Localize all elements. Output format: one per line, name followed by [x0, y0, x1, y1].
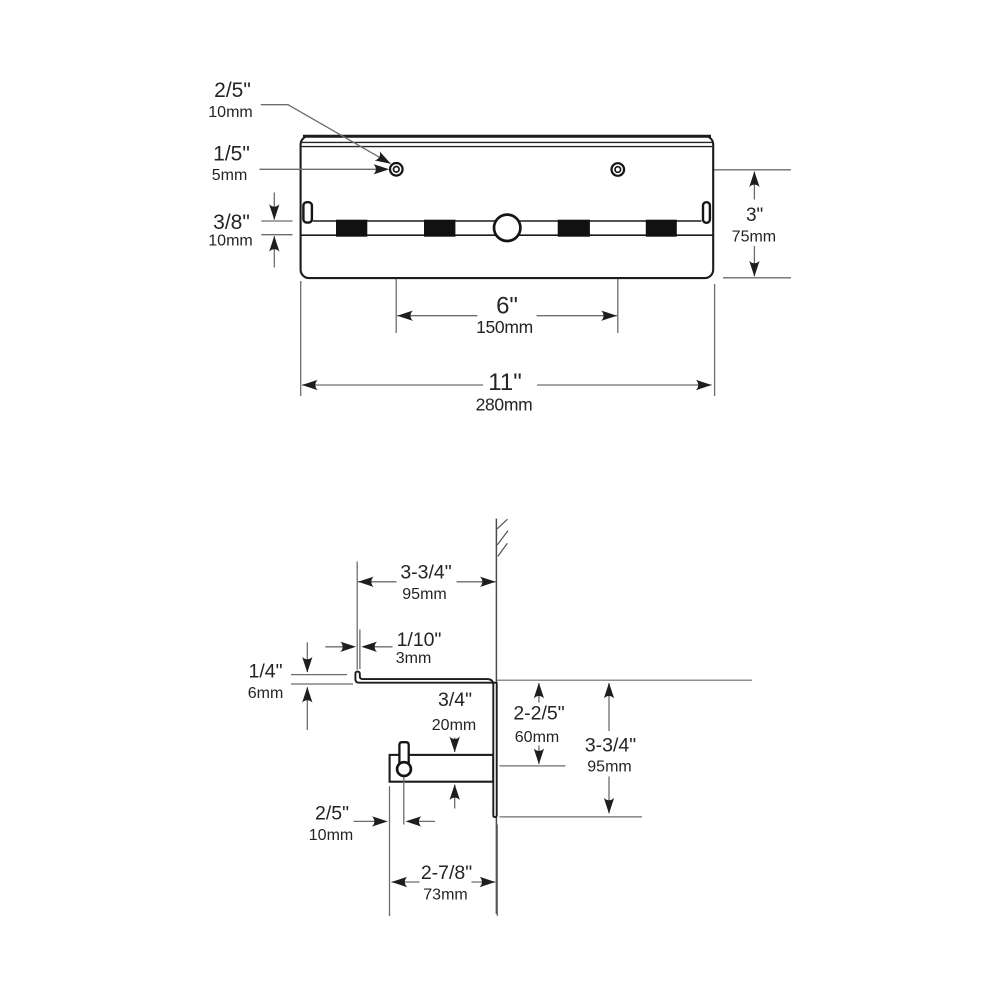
label 3-3/4in 95mm right: [585, 735, 636, 776]
dimension 3in 75mm height: [749, 171, 759, 276]
wall hatch marks: [497, 519, 508, 556]
right end tab: [703, 202, 710, 223]
left end tab: [303, 202, 312, 222]
extension line from right screw hole: [617, 178, 619, 334]
svg-text:73mm: 73mm: [423, 887, 467, 904]
svg-text:1/4": 1/4": [248, 661, 282, 683]
top trim line 1: [302, 141, 712, 143]
label 1/10in 3mm: [396, 629, 442, 667]
svg-text:5mm: 5mm: [212, 167, 248, 184]
svg-text:2-7/8": 2-7/8": [421, 862, 472, 884]
svg-text:20mm: 20mm: [432, 717, 476, 734]
svg-text:11": 11": [488, 369, 521, 396]
svg-text:2-2/5": 2-2/5": [513, 703, 564, 725]
wall line: [495, 519, 497, 914]
dimension 1/10in 3mm lip thickness: [325, 642, 392, 652]
dimension 2-7/8in 73mm: [392, 877, 496, 887]
svg-text:2/5": 2/5": [214, 79, 251, 102]
black pad 3: [558, 220, 590, 237]
black pad 4: [646, 220, 677, 237]
dimension 3/8in 10mm bar height: [261, 193, 292, 268]
label 3-3/4in 95mm top: [400, 562, 451, 603]
shelf sheet profile: [355, 672, 496, 818]
label 1/5in 5mm: [212, 143, 250, 185]
label 2/5in 10mm bottom: [309, 803, 353, 844]
svg-text:95mm: 95mm: [587, 759, 631, 776]
extension line 11in right: [714, 284, 716, 396]
label 11in 280mm: [476, 369, 533, 415]
svg-text:3/8": 3/8": [213, 211, 250, 234]
dimension 3/4in 20mm spindle height: [450, 737, 460, 809]
svg-text:75mm: 75mm: [732, 228, 776, 245]
dimension 2-2/5in 60mm: [500, 683, 566, 766]
svg-text:10mm: 10mm: [208, 233, 252, 250]
svg-text:3": 3": [746, 205, 763, 226]
svg-text:3-3/4": 3-3/4": [400, 562, 451, 584]
towel bar bottom line: [301, 234, 712, 236]
towel bar top line: [313, 220, 702, 222]
svg-text:10mm: 10mm: [309, 827, 353, 844]
extension line from left screw hole: [395, 178, 397, 334]
svg-text:3/4": 3/4": [438, 689, 472, 711]
svg-text:60mm: 60mm: [515, 729, 559, 746]
extension line pin center: [403, 778, 405, 825]
top trim line 2: [302, 146, 712, 148]
retaining pin: [399, 742, 408, 765]
dimension 3-3/4in 95mm depth: [358, 577, 496, 587]
left screw hole: [390, 163, 403, 176]
label 3/8in 10mm: [208, 211, 252, 250]
dimension 1/4in 6mm lip height: [291, 642, 353, 730]
extension line 3in bottom: [723, 277, 791, 279]
dimension 11in 280mm overall width: [302, 380, 712, 390]
shelf body front view rounded rectangle: [301, 136, 714, 278]
svg-text:6mm: 6mm: [248, 685, 284, 702]
label 2-7/8in 73mm: [421, 862, 472, 904]
svg-text:95mm: 95mm: [402, 586, 446, 603]
black pad 1: [336, 220, 367, 237]
right screw hole: [612, 163, 625, 176]
dimension 2/5in 10mm pin offset: [354, 816, 436, 826]
countertop reference line: [497, 679, 752, 681]
label 3/4in 20mm: [432, 689, 476, 734]
spindle bar side view: [390, 755, 494, 782]
leader 2/5in to left hole: [261, 105, 394, 169]
svg-text:6": 6": [496, 293, 518, 320]
svg-text:150mm: 150mm: [476, 317, 533, 337]
leader 1/5in to left hole: [260, 164, 390, 174]
black pad 2: [424, 220, 455, 237]
extension line lip inner face: [359, 630, 361, 670]
extension line shelf left end: [356, 562, 358, 670]
label 6in 150mm: [476, 293, 533, 338]
svg-text:1/5": 1/5": [213, 143, 250, 166]
svg-text:2/5": 2/5": [315, 803, 349, 825]
dimension 6in 150mm between holes: [397, 311, 617, 321]
label 1/4in 6mm: [248, 661, 284, 702]
pin ball end: [397, 762, 411, 776]
extension line 11in left: [300, 281, 302, 396]
extension line wall bottom: [496, 825, 498, 917]
label 3in 75mm: [732, 205, 776, 246]
extension line spindle left: [389, 786, 391, 916]
center circle knob: [494, 215, 520, 241]
svg-text:3mm: 3mm: [396, 650, 432, 667]
extension line 3in top: [626, 169, 791, 171]
svg-text:280mm: 280mm: [476, 395, 533, 415]
svg-text:3-3/4": 3-3/4": [585, 735, 636, 757]
svg-text:1/10": 1/10": [397, 629, 442, 651]
dimension 3-3/4in 95mm right: [500, 683, 643, 817]
label 2-2/5in 60mm: [513, 703, 564, 747]
svg-text:10mm: 10mm: [208, 104, 252, 121]
label 2/5in 10mm: [208, 79, 252, 121]
